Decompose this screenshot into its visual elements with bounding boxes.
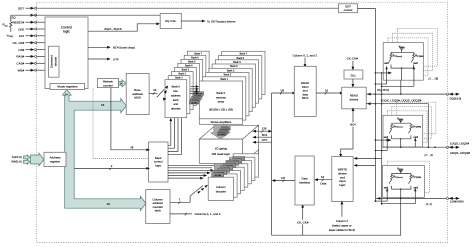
bus 128 label pile on gray arrow <box>217 127 230 137</box>
wire internal data bus vertical <box>271 93 273 235</box>
gray arrow sense amps to I/O gating <box>210 124 230 139</box>
wire BC4 into I/O gating <box>252 133 271 138</box>
wire CAS# <box>37 62 49 64</box>
ODT circuit DM front box <box>383 166 425 199</box>
wire WRITE drivers to data interface <box>314 175 332 186</box>
svg-text:BC4: BC4 <box>262 133 268 137</box>
block WRITE drivers and input logic <box>332 157 353 202</box>
wire DQ circuit to DQ net <box>400 80 402 94</box>
svg-text:row-: row- <box>173 89 178 93</box>
pin DQ[15:0] <box>448 93 461 101</box>
svg-text:control: control <box>344 8 353 12</box>
wire WE# <box>37 69 49 71</box>
svg-text:16,384: 16,384 <box>218 134 225 136</box>
svg-text:RTT(WR): RTT(WR) <box>413 125 422 128</box>
wire CK CK# <box>37 42 45 44</box>
svg-text:ODT: ODT <box>18 7 25 11</box>
wire DLL to READ drivers <box>352 79 355 88</box>
block bank control logic <box>149 142 169 182</box>
wire DQS net line <box>366 102 428 147</box>
pin CAS# <box>16 62 36 66</box>
svg-text:A12: A12 <box>19 34 25 38</box>
svg-text:Mode registers: Mode registers <box>57 85 78 89</box>
svg-text:WE#: WE# <box>18 69 25 73</box>
wire ODT to ODT control <box>37 7 339 9</box>
wire column counter to column decoder fan <box>170 185 208 204</box>
svg-text:Bank 1: Bank 1 <box>175 77 183 80</box>
wire DQ net line <box>366 93 448 96</box>
wire bank bits from refresh/row bus down to bank control <box>111 88 150 152</box>
wire CK into DLL <box>352 61 355 71</box>
svg-text:interface: interface <box>299 180 310 184</box>
svg-text:DQ[15:0]: DQ[15:0] <box>377 88 389 92</box>
wire BC4 read drivers to write drivers <box>339 107 357 157</box>
svg-text:Bank 4: Bank 4 <box>230 65 238 68</box>
svg-text:drivers: drivers <box>350 97 359 101</box>
svg-text:sw2: sw2 <box>413 136 418 139</box>
svg-text:CS#: CS# <box>18 48 24 52</box>
svg-text:logic: logic <box>339 183 345 187</box>
wire ODT enable into DQS circuit <box>375 139 392 142</box>
svg-text:I/O gating: I/O gating <box>215 146 228 150</box>
svg-text:CK, CK#: CK, CK# <box>13 41 25 45</box>
block address register <box>44 152 66 166</box>
wire A12 <box>37 35 45 37</box>
svg-text:LDQS, LDQS#: LDQS, LDQS# <box>450 142 469 146</box>
svg-text:Bank 2: Bank 2 <box>224 74 232 77</box>
svg-text:Column 2: Column 2 <box>336 219 348 223</box>
svg-text:Bank 0: Bank 0 <box>172 85 181 89</box>
svg-text:Bank 5: Bank 5 <box>233 61 241 64</box>
pin CK CK# <box>13 41 37 45</box>
wire column counter columns 0 1 2 <box>170 212 221 216</box>
pin RAS# <box>16 55 36 59</box>
block data interface <box>295 156 314 205</box>
pin WE# <box>18 69 37 73</box>
svg-text:counter: counter <box>103 83 113 87</box>
svg-text:DM mask logic: DM mask logic <box>212 152 231 156</box>
wire OTF into I/O gating <box>252 138 271 143</box>
pin BA[2:0] <box>11 159 30 164</box>
svg-text:address: address <box>171 93 181 97</box>
svg-text:Sense amplifiers: Sense amplifiers <box>211 120 232 124</box>
block refresh counter <box>97 79 118 88</box>
svg-text:decode: decode <box>54 57 58 67</box>
label CK CK# bottom <box>296 220 310 225</box>
block DLL <box>344 70 363 79</box>
block ZQ CAL <box>160 13 181 28</box>
svg-text:Bank 3: Bank 3 <box>182 69 190 72</box>
ODT driver circuit stack DQ dashed copies <box>388 29 438 76</box>
bus address input wide arrow <box>31 153 44 166</box>
block row-address MUX <box>126 74 149 115</box>
wire dotted control line from control logic <box>93 89 149 159</box>
svg-text:OTF: OTF <box>113 57 119 61</box>
svg-text:(65,536 x 128 x 128): (65,536 x 128 x 128) <box>209 108 233 112</box>
svg-text:DLL: DLL <box>351 73 357 77</box>
svg-text:decoder: decoder <box>171 107 181 111</box>
svg-text:logic: logic <box>63 30 70 34</box>
wire row MUX to bank row latch fan <box>149 88 164 97</box>
memory array stack banks 7..1 <box>203 51 266 120</box>
svg-text:latch: latch <box>155 209 161 213</box>
wire latch to array arrows <box>190 85 199 95</box>
svg-text:sw1: sw1 <box>384 62 389 65</box>
pin LDQS LDQS# UDQS UDQS# <box>448 142 470 156</box>
bus label pile above column decoder <box>212 157 245 177</box>
bus internal address bus (teal) <box>63 89 146 210</box>
block column address counter latch <box>146 190 170 224</box>
block mode registers <box>50 83 85 89</box>
wire ODT control output down right side <box>358 9 376 202</box>
wire vertical write data bus <box>375 72 383 204</box>
wire DM exit net <box>376 197 448 200</box>
svg-text:16: 16 <box>325 88 329 92</box>
wire sw control lines DQ <box>375 83 414 87</box>
wire DQ write data into WRITE drivers <box>354 157 382 160</box>
svg-text:To ODT/output drivers: To ODT/output drivers <box>207 19 236 23</box>
svg-text:16,384: 16,384 <box>191 102 198 104</box>
bank 0 column decoder front box <box>208 177 233 200</box>
wire DM loop to data interface <box>272 198 401 235</box>
pin ODT <box>18 7 37 11</box>
svg-text:UDQS, UDQS#: UDQS, UDQS# <box>450 151 470 155</box>
bank 0 memory array front box <box>199 81 242 119</box>
svg-text:CKE: CKE <box>18 27 24 31</box>
svg-text:RAS#: RAS# <box>16 55 24 59</box>
wire ZQCL ZQCS from control logic to ZQ CAL <box>88 22 160 31</box>
svg-text:ZQ CAL: ZQ CAL <box>165 19 176 23</box>
wire OTF output <box>88 57 119 61</box>
wire row MUX fan arrowheads <box>163 86 168 101</box>
svg-text:16: 16 <box>107 202 111 206</box>
wire bank control outputs to column decoder stack <box>168 165 214 179</box>
pin ZQ <box>11 14 36 20</box>
wire data bus 128 between I/O gating and internal bus <box>252 127 272 133</box>
svg-text:array: array <box>218 100 225 104</box>
pin RESET# <box>13 21 37 25</box>
svg-text:Bank 3: Bank 3 <box>227 70 235 73</box>
wire sw control line DQS <box>375 150 388 152</box>
svg-text:RTT(nom): RTT(nom) <box>393 176 403 179</box>
svg-text:ZQ: ZQ <box>11 16 16 20</box>
svg-text:OTF: OTF <box>262 138 268 142</box>
svg-text:ZQCL, ZQCS: ZQCL, ZQCS <box>104 27 121 31</box>
svg-text:CAS#: CAS# <box>16 62 24 66</box>
bus 16384 label pile between latch and array <box>189 92 203 105</box>
pin A12 <box>19 34 37 38</box>
wire DQS write data into WRITE drivers <box>354 164 376 167</box>
bus refresh counter to row MUX teal arrow <box>119 80 127 87</box>
sense amplifiers bar <box>199 119 242 125</box>
resistor RZQ external <box>2 15 12 32</box>
block control logic <box>45 17 88 89</box>
block command decode <box>49 46 59 77</box>
ODT circuit stack DM dashed copy <box>388 161 430 193</box>
svg-text:RTT(WR): RTT(WR) <box>413 176 422 179</box>
svg-text:sw1: sw1 <box>384 186 389 189</box>
svg-text:LDQS, LDQS#, UDQS, UDQS#: LDQS, LDQS#, UDQS, UDQS# <box>381 99 422 103</box>
svg-text:CK, CK#: CK, CK# <box>347 56 359 60</box>
column decoder stack banks 7..1 <box>212 154 259 197</box>
ground VSSQ <box>7 34 14 39</box>
wire column2 select into WRITE drivers <box>341 201 344 217</box>
wire column select into READ FIFO <box>304 58 307 68</box>
svg-text:(1, 2): (1, 2) <box>426 202 432 206</box>
svg-text:16: 16 <box>153 88 157 92</box>
svg-text:logic: logic <box>155 163 161 167</box>
svg-text:1/8: 1/8 <box>280 88 284 92</box>
pin LDM/UDM <box>448 197 464 204</box>
svg-text:RTT(WR): RTT(WR) <box>415 54 424 57</box>
svg-text:Column 0, 1, and 2: Column 0, 1, and 2 <box>293 54 318 58</box>
svg-text:DQ[15:0]: DQ[15:0] <box>450 96 462 100</box>
wire READ FIFO to READ drivers <box>316 88 343 94</box>
wire ZQ CAL output to ODT/output drivers <box>181 19 236 23</box>
block READ drivers <box>342 87 367 109</box>
wire ZQ to ZQ CAL <box>11 14 160 16</box>
svg-text:16: 16 <box>101 103 105 107</box>
ODT circuit stack DQS dashed copies <box>387 102 436 143</box>
pin A[15:0] <box>12 155 30 160</box>
block ODT control <box>339 4 358 13</box>
svg-text:LDM/UDM: LDM/UDM <box>450 200 464 204</box>
svg-text:A[15:0]: A[15:0] <box>12 155 22 159</box>
svg-text:RESET#: RESET# <box>13 21 25 25</box>
svg-text:sw1: sw1 <box>384 136 389 139</box>
svg-text:RTT(nom): RTT(nom) <box>393 54 403 57</box>
wire RESET# <box>37 21 45 23</box>
svg-text:Bank 4: Bank 4 <box>185 65 193 68</box>
wire read data to READ FIFO <box>272 88 297 94</box>
svg-text:MUX: MUX <box>302 96 308 100</box>
svg-text:RTT(nom): RTT(nom) <box>393 125 403 128</box>
svg-text:16: 16 <box>321 175 325 179</box>
svg-text:(1 ... 16): (1 ... 16) <box>429 77 439 81</box>
svg-text:Bank 6: Bank 6 <box>191 56 199 59</box>
svg-text:and: and <box>174 102 179 106</box>
svg-text:Data: Data <box>320 182 326 186</box>
wire CKE <box>37 28 45 30</box>
wire from address bus to bank control <box>74 164 150 170</box>
wire RAS# <box>37 55 49 57</box>
svg-text:16,384: 16,384 <box>214 175 221 177</box>
svg-text:latch: latch <box>173 98 179 102</box>
wire ODT enable into DQ circuit <box>375 72 392 75</box>
svg-text:1/8: 1/8 <box>281 176 285 180</box>
label column 2 select <box>329 219 355 232</box>
svg-text:Columns 0, 1, and 2: Columns 0, 1, and 2 <box>195 212 221 216</box>
svg-text:decoder: decoder <box>216 189 226 193</box>
svg-text:(1 ... 4): (1 ... 4) <box>425 153 433 157</box>
svg-text:sw2: sw2 <box>413 186 418 189</box>
svg-text:BA[2:0]: BA[2:0] <box>11 160 21 164</box>
svg-text:register: register <box>50 159 60 163</box>
svg-text:Bank 6: Bank 6 <box>236 57 244 60</box>
svg-text:CK, CK#: CK, CK# <box>297 221 309 225</box>
svg-text:MUX: MUX <box>134 96 141 100</box>
wire bank control outputs to row latch stack <box>168 106 183 155</box>
svg-text:sw2: sw2 <box>413 62 418 65</box>
ODT circuit DQS front box <box>383 115 423 150</box>
bank 0 row-address latch and decoder front box <box>165 80 187 118</box>
svg-text:BC4 (burst chop): BC4 (burst chop) <box>113 46 135 50</box>
wire BC4 burst chop output <box>88 46 135 50</box>
block READ FIFO and data MUX <box>294 66 316 116</box>
wire data interface to internal bus <box>272 176 295 182</box>
svg-text:Bank 7: Bank 7 <box>240 53 248 56</box>
svg-text:lower nibble for BC4): lower nibble for BC4) <box>329 228 355 232</box>
svg-text:Bank 1: Bank 1 <box>220 78 228 81</box>
svg-text:(select upper or: (select upper or <box>332 223 352 227</box>
ODT driver circuit DQ front box <box>383 43 424 87</box>
bank row-address latch stack banks 7..1 <box>168 51 209 113</box>
wire DQS exit net <box>382 146 449 148</box>
pin CS# <box>18 48 36 52</box>
svg-text:BC4: BC4 <box>350 123 356 127</box>
wire junction write bus to DM area <box>375 193 416 204</box>
wire right-back edge down to column decoder <box>258 150 260 154</box>
pin CKE <box>18 27 37 31</box>
gray arrow I/O gating to column decoder <box>211 163 229 177</box>
svg-text:128: 128 <box>262 127 267 131</box>
svg-text:Bank 5: Bank 5 <box>188 61 196 64</box>
block I/O gating DM mask logic 3D slab <box>199 125 258 163</box>
wire CS# <box>37 49 49 51</box>
svg-text:Bank 7: Bank 7 <box>194 52 202 55</box>
